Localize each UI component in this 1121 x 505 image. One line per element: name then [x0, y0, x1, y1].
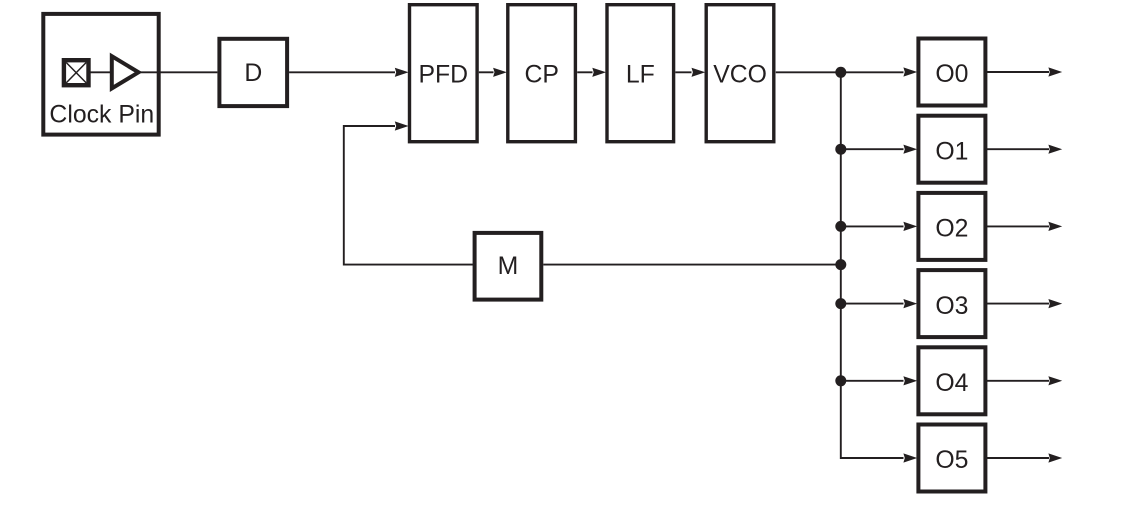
svg-text:O0: O0 [935, 61, 968, 88]
svg-text:LF: LF [626, 61, 655, 88]
svg-text:O5: O5 [935, 447, 968, 474]
svg-text:Clock Pin: Clock Pin [49, 102, 154, 129]
svg-text:M: M [498, 253, 519, 280]
svg-text:O4: O4 [935, 370, 968, 397]
svg-text:O3: O3 [935, 293, 968, 320]
svg-text:PFD: PFD [418, 61, 468, 88]
svg-text:CP: CP [524, 61, 558, 88]
svg-text:O1: O1 [935, 138, 968, 165]
svg-text:O2: O2 [935, 216, 968, 243]
svg-text:D: D [244, 60, 262, 87]
svg-text:VCO: VCO [713, 61, 767, 88]
